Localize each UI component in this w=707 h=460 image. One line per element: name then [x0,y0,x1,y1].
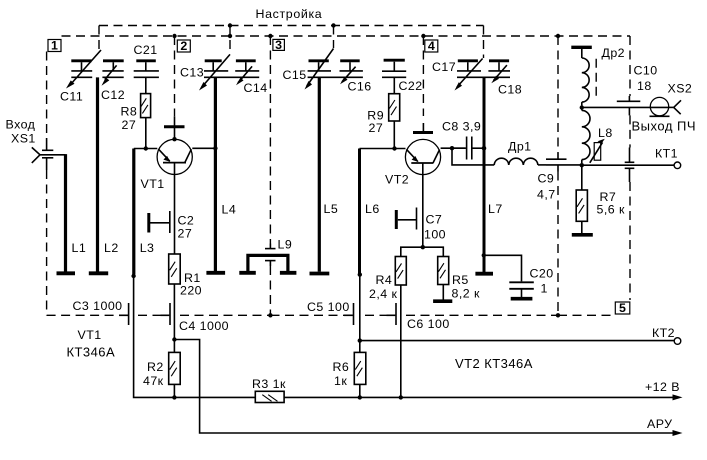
svg-text:27: 27 [369,121,384,135]
svg-text:Др2: Др2 [602,46,626,60]
node R2 bottom [172,395,176,399]
svg-text:R3 1к: R3 1к [252,377,286,391]
svg-text:C13: C13 [180,66,204,80]
wire L7 tap to C20 [484,255,522,281]
partition wall through VT2 [422,36,424,116]
svg-text:27: 27 [178,227,193,241]
input connector XS1 [32,147,66,163]
feedthrough insulator on right wall at KT1 [625,148,635,183]
trimmer capacitor C13 [199,54,259,90]
svg-text:2: 2 [180,39,187,53]
capacitor C2 with chassis bar [149,211,170,233]
coupling loop L9 [239,255,296,272]
wire R1 to node through C4 [173,284,175,340]
wire node to R5 [423,247,444,256]
capacitor C8 [452,137,483,160]
svg-text:C9: C9 [538,172,555,186]
capacitor C22 with chassis bar [382,60,406,93]
compartment label box 1 [48,39,61,53]
shield box right wall [629,36,631,300]
svg-text:R5: R5 [452,273,469,287]
choke Dr2 [582,49,589,105]
svg-text:VT2: VT2 [385,173,409,187]
svg-text:27: 27 [122,118,137,132]
trimmer capacitor C15 [305,49,363,90]
svg-text:Выход ПЧ: Выход ПЧ [632,119,697,134]
chassis bar above choke Dr2 [571,46,592,49]
trimmer capacitor C18 [488,61,510,83]
shield box bottom wall [47,314,615,316]
svg-text:18: 18 [637,79,652,93]
node Dr2/L8/output [580,105,584,109]
svg-text:C10: C10 [634,64,658,78]
svg-text:C6 100: C6 100 [407,317,450,331]
feedthrough capacitor C4 on bottom wall [161,303,171,325]
feedthrough capacitor C9 on partition [546,153,567,172]
node R8/VT1 [144,146,148,150]
compartment label box 4 [425,39,438,53]
transistor VT1 [157,139,192,174]
node L6 bottom [358,272,362,276]
test point KT2 [674,338,681,345]
resistor R4 [395,257,406,286]
node R9/VT2 [392,146,396,150]
partition wall through VT1 [174,36,176,116]
wire L3 to +12V rail through C3 [134,276,256,397]
feedthrough capacitor C6 on bottom wall [387,303,397,325]
line L2 [89,77,108,273]
output connector XS2 [650,97,682,116]
svg-text:47к: 47к [143,374,164,388]
svg-text:C11: C11 [60,90,83,104]
svg-text:1: 1 [541,282,548,296]
junction dots on shield bottom wall [268,313,560,317]
resistor R2 [169,340,181,398]
svg-text:C5 100: C5 100 [307,300,350,314]
wire node to KT1 [582,164,674,166]
capacitor C7 with chassis bar [396,208,416,230]
tuning gang dashed bus (Настройка) [99,26,484,59]
svg-text:5: 5 [619,301,626,315]
node R4/C6 on +12V rail [399,395,403,399]
svg-text:C14: C14 [244,81,268,95]
trimmer capacitor C16 [340,61,363,85]
node KT2/R6/C5 [358,338,362,342]
svg-text:КТ1: КТ1 [655,147,678,161]
svg-text:L4: L4 [222,203,237,217]
svg-text:C16: C16 [348,80,372,94]
capacitor C21 with chassis bar [134,61,159,94]
resistor R5 [438,257,449,300]
line L1 [57,154,76,273]
line L6 [358,149,361,275]
svg-text:L6: L6 [365,202,380,216]
svg-text:C3 1000: C3 1000 [73,299,123,313]
trimmer capacitor C12 [102,61,124,86]
node R6 bottom [358,395,362,399]
node C7/R4/R5 [421,245,425,249]
node on L4 [213,146,217,150]
AGC arrowhead [673,430,683,436]
svg-text:R8: R8 [121,105,138,119]
trimmer capacitor C11 [66,50,101,89]
resistor R6 [354,341,366,398]
wire VT2 collector to choke [452,148,494,165]
svg-text:АРУ: АРУ [647,417,672,431]
choke Dr1 [494,158,546,165]
feedthrough capacitor C3 on bottom wall [119,303,129,325]
svg-text:C20: C20 [530,267,554,281]
VT2 emitter wire down [422,163,424,247]
wire node to R4 [401,247,423,256]
trimmer capacitor C17 [455,59,511,91]
+12V rail wire [284,396,676,398]
svg-text:3: 3 [275,38,282,52]
line L5 [310,77,330,273]
svg-text:L3: L3 [140,241,155,255]
svg-text:VT1: VT1 [141,177,165,191]
partition wall between compartments 4 and 5 [557,36,559,315]
partition wall between compartments 2 and 3 [269,36,271,315]
svg-text:C8 3,9: C8 3,9 [442,120,481,134]
svg-text:L5: L5 [324,202,339,216]
svg-text:4: 4 [428,39,435,53]
node L8/R7/KT1 [580,163,584,167]
chassis ground under R7 [572,233,593,237]
VT1 emitter wire down [174,163,176,254]
svg-text:C17: C17 [432,60,456,74]
svg-text:L1: L1 [72,241,87,255]
svg-text:1к: 1к [334,374,347,388]
svg-text:Вход: Вход [6,118,36,132]
svg-text:L2: L2 [104,241,119,255]
svg-text:R2: R2 [147,360,164,374]
feedthrough capacitor C10 on right wall [617,96,641,115]
wire VT1 collector to L4 [192,147,214,149]
svg-text:5,6 к: 5,6 к [597,203,625,217]
svg-text:VT2 КТ346А: VT2 КТ346А [455,356,533,371]
svg-text:C18: C18 [498,83,522,97]
svg-text:L9: L9 [278,238,293,252]
svg-text:100: 100 [424,228,446,242]
svg-text:XS1: XS1 [11,132,36,146]
+12V arrowhead [673,394,683,400]
chassis ground under C20 [511,297,533,301]
feedthrough insulator on partition at L9 [265,244,276,267]
shield box left wall [46,52,48,316]
wire KT2 line [360,340,674,342]
svg-text:C12: C12 [101,88,125,102]
feedthrough capacitor C5 on bottom wall [344,303,354,325]
compartment label box 3 [273,38,285,52]
svg-text:R6: R6 [333,360,350,374]
svg-text:C15: C15 [283,68,307,82]
svg-text:Др1: Др1 [508,140,532,154]
wire VT2 emitter node to L6 [360,148,406,150]
wire VT2 collector node [441,147,466,149]
svg-text:R4: R4 [376,273,393,287]
inductor L8 (adjustable) [582,108,605,164]
node L3 bottom [131,274,135,278]
node C8/L7 [482,146,487,151]
wire L6 to KT2 node through C5 [359,275,361,341]
svg-text:+12 В: +12 В [645,380,680,394]
svg-text:L8: L8 [598,126,613,140]
svg-text:C7: C7 [426,213,443,227]
line L3 [132,149,135,275]
node C4/R2/AGC branch [172,337,176,341]
resistor R9 [389,94,400,149]
junction dots on tuning bus [228,23,336,27]
line L4 [206,77,225,272]
svg-text:КТ346А: КТ346А [67,345,116,360]
junction dots on shield top wall [172,34,560,38]
feedthrough insulator on left wall at XS1 [42,138,53,170]
wire R4 to +12V rail through C6 [400,285,402,397]
resistor R7 [576,165,587,233]
line L7 [475,77,493,273]
resistor R8 [141,94,151,149]
svg-text:8,2 к: 8,2 к [452,287,480,301]
svg-text:C4 1000: C4 1000 [179,319,229,333]
VT1 case stem and shield plate [164,116,185,141]
shield box top wall [62,35,631,37]
svg-text:VT1: VT1 [78,328,102,342]
transistor VT2 [405,139,440,174]
trimmer capacitor C14 [235,61,259,86]
svg-text:1: 1 [51,39,58,53]
svg-text:C21: C21 [134,43,158,57]
svg-text:220: 220 [180,283,202,297]
svg-text:Настройка: Настройка [256,7,323,21]
compartment label box 2 [177,39,190,53]
node VT2 collector [450,146,454,150]
capacitor C20 [509,282,534,297]
VT2 case shield plate [413,123,433,133]
wire VT1 base node to L3 [134,148,158,150]
svg-text:XS2: XS2 [668,82,693,96]
wire AGC branch [174,340,676,434]
svg-text:C2: C2 [178,214,195,228]
test point KT1 [674,162,681,169]
wire C9 to L8 node [546,164,581,166]
resistor R3 in +12V rail [255,391,284,402]
svg-text:4,7: 4,7 [537,188,556,202]
node L7/C20 tap [482,253,486,257]
svg-text:КТ2: КТ2 [652,326,675,340]
svg-text:L7: L7 [488,202,503,216]
chassis ground under R5 [433,299,452,303]
svg-text:2,4 к: 2,4 к [369,287,397,301]
wire output node to XS2 [582,106,669,108]
compartment label box 5 [615,301,630,315]
magnetic core of Dr2 [595,59,597,97]
svg-text:C22: C22 [399,79,423,93]
resistor R1 [169,254,181,284]
